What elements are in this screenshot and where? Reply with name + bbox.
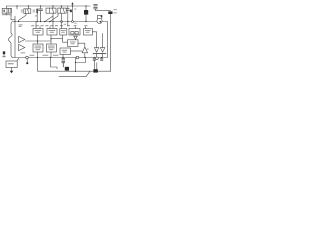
- block A4: [69, 29, 80, 36]
- wire B1 B2 to bottom edge: [38, 52, 52, 58]
- wire A3 stub: [62, 35, 64, 39]
- wire B3 to U4: [78, 43, 85, 47]
- power arrow symbol: [72, 3, 74, 6]
- component R3 R4 below module: [93, 59, 103, 60]
- wire stub below circle: [26, 59, 28, 63]
- node module top pin dots: [14, 21, 86, 22]
- ground: [11, 68, 13, 71]
- component X3: [33, 10, 35, 13]
- component X2: [28, 6, 30, 9]
- block A3: [60, 29, 67, 36]
- wire bottom left run: [38, 58, 111, 72]
- block B3: [68, 40, 79, 47]
- capacitor C1: [40, 6, 42, 9]
- wire diagonal X4 to module: [45, 16, 53, 22]
- node open junction 2: [72, 21, 74, 23]
- block A2: [47, 29, 57, 36]
- block A1: [33, 29, 43, 36]
- label bottom pin names: [30, 54, 59, 57]
- component D4: [108, 11, 112, 14]
- wire diagonal X2 to module: [19, 13, 26, 21]
- block B1: [33, 44, 43, 52]
- node open junction: [61, 21, 63, 23]
- wire B4 bottom: [62, 55, 64, 58]
- op-amp U4: [82, 47, 88, 53]
- label tiny mark: [35, 15, 37, 16]
- node bottom edge dots: [37, 57, 102, 58]
- capacitor C2: [67, 6, 69, 9]
- inductor L1: [94, 4, 97, 8]
- wire stub: [16, 6, 18, 9]
- wire diagonal X5 to module: [50, 13, 58, 22]
- block A5: [84, 29, 93, 36]
- crystal Y1 diodes: [94, 48, 98, 53]
- component X5: [61, 6, 63, 8]
- capacitor C3 polarized: [85, 6, 87, 10]
- wire pair down: [94, 61, 96, 70]
- op-amp U3: [19, 44, 25, 50]
- connector J1: [6, 6, 8, 8]
- wire B4 out to U4: [71, 50, 83, 52]
- transistor Q2: [93, 69, 97, 72]
- wire right inner vertical: [102, 34, 104, 49]
- node bottom connector circles: [26, 56, 29, 59]
- label pin names row: [31, 25, 87, 26]
- wire stubs top edge to blocks: [36, 22, 86, 29]
- wire A5 out: [93, 32, 97, 48]
- wire riser and loop: [76, 58, 86, 72]
- wire internal left vertical: [14, 16, 16, 57]
- wire diag to lower run: [59, 71, 90, 76]
- wire small jog: [51, 58, 58, 69]
- component X4: [52, 6, 54, 8]
- module U1 outline: [8, 22, 107, 58]
- label U1 text: [19, 24, 23, 27]
- oscillator circle G1: [97, 18, 102, 23]
- op-amp U2: [19, 36, 25, 42]
- block B2: [46, 44, 56, 52]
- buffer T5: [74, 36, 77, 39]
- wire right side down: [110, 14, 112, 71]
- block G2: [17, 58, 19, 61]
- wire to block B3: [51, 39, 68, 43]
- label text marks: [114, 9, 117, 13]
- antenna E1: [3, 51, 5, 54]
- wire VCC top rail: [7, 5, 91, 7]
- label near U3: [21, 51, 26, 54]
- transistor Q1: [65, 67, 69, 71]
- node rail junction dots: [16, 5, 86, 6]
- wire from J1 to module: [11, 15, 15, 20]
- resistor R2: [62, 59, 65, 67]
- wire bus to blocks B: [26, 40, 52, 42]
- block B4: [60, 48, 71, 55]
- diode D1: [72, 6, 74, 22]
